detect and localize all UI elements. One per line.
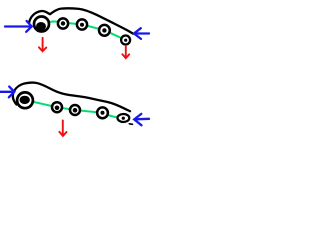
bottom cell: green links: [25, 100, 123, 118]
blue arrow top-left (points right): [5, 21, 32, 32]
circle C: [77, 19, 87, 29]
circle D: [99, 25, 110, 36]
circle H: [70, 105, 80, 115]
top cell: circle A (large, left): [34, 17, 49, 32]
bottom cell: circle F (large, left): [17, 92, 33, 108]
red arrow below circle E: [122, 47, 129, 59]
bottom cell membrane outline: [13, 83, 130, 112]
circle B: [58, 18, 68, 28]
blue arrow top-right (points left): [134, 28, 149, 39]
red arrow below bottom cell: [59, 120, 66, 135]
circle J (tail, flattened): [118, 114, 130, 122]
circle G: [52, 102, 62, 112]
top cell membrane outline: [29, 8, 133, 33]
red arrow below circle A: [39, 38, 46, 52]
circle I: [97, 107, 108, 118]
blue arrow bottom-left (points right): [0, 87, 14, 98]
top cell: green links: [43, 22, 126, 40]
blue arrow bottom-right (points left): [134, 114, 149, 125]
circle E (tail): [121, 36, 130, 45]
